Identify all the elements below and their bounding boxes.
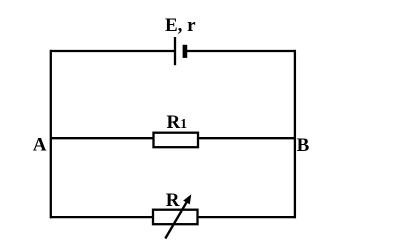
wire middle-right segment (R1 to B): [198, 137, 297, 139]
label E, r: [165, 15, 196, 36]
wire left rail: [50, 50, 52, 218]
rheostat R body: [153, 210, 198, 225]
battery cell E,r: short thick plate: [183, 45, 188, 58]
wire middle-left segment (A to R1): [50, 137, 154, 139]
node A: [33, 135, 47, 156]
wire top-left segment: [50, 50, 175, 52]
wire bottom-right segment: [198, 216, 297, 218]
battery cell E,r: long plate: [174, 37, 176, 65]
svg-text:E, r: E, r: [165, 15, 196, 36]
svg-text:B: B: [297, 135, 310, 156]
node B: [297, 135, 310, 156]
resistor R1 body: [154, 133, 199, 148]
svg-text:A: A: [33, 135, 47, 156]
wire right rail: [294, 50, 296, 218]
svg-text:R1: R1: [167, 112, 188, 133]
rheostat R arrow: [165, 194, 191, 238]
wire bottom-left segment: [50, 216, 153, 218]
label R1: [167, 112, 188, 133]
label R: [166, 190, 180, 211]
wire top-right segment: [187, 50, 297, 52]
svg-text:R: R: [166, 190, 180, 211]
